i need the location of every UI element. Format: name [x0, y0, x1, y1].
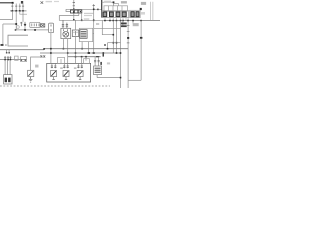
node S — [81, 48, 83, 50]
node I — [93, 9, 95, 22]
node fuse — [80, 11, 81, 12]
node mid — [104, 44, 106, 46]
fuse FB4 — [122, 12, 126, 17]
wire pin — [75, 20, 77, 63]
bus right top — [104, 20, 160, 22]
wire left horizontal — [3, 23, 16, 25]
battery cell 2 — [8, 78, 11, 83]
relay K2 — [63, 63, 69, 79]
node O — [63, 48, 65, 50]
label — [54, 1, 59, 2]
component X4 — [41, 1, 44, 3]
node step — [113, 1, 115, 3]
wire — [122, 21, 125, 27]
box small — [15, 56, 19, 60]
bus left horizontal — [0, 49, 44, 51]
wire — [107, 43, 109, 49]
switch S4 — [22, 4, 24, 11]
connector block 2 — [21, 57, 27, 62]
terminal tick 2 — [5, 44, 8, 46]
node D — [24, 24, 26, 26]
relay enclosure box — [47, 63, 91, 82]
node fuse2 — [81, 20, 83, 22]
wire — [96, 75, 98, 78]
ground — [29, 77, 33, 83]
connector J2 — [62, 20, 68, 28]
label — [96, 23, 99, 25]
switch S1 — [11, 3, 13, 11]
fuse F1 — [49, 23, 54, 33]
small box — [84, 59, 90, 64]
bus mid-lower — [68, 56, 101, 58]
connector circle — [17, 26, 20, 29]
wire riser — [93, 4, 95, 53]
wire left branch — [0, 11, 13, 20]
wire — [81, 13, 83, 20]
battery box — [4, 75, 12, 84]
wire — [24, 26, 26, 30]
node J — [140, 8, 142, 10]
heater element — [94, 66, 102, 75]
node M — [127, 37, 129, 39]
dashed ground line — [0, 85, 110, 87]
wire motor pin 1 — [62, 39, 64, 49]
wire — [81, 42, 83, 49]
wire right vertical 2 — [127, 21, 130, 88]
wire fuse stubs — [105, 18, 128, 21]
label — [107, 62, 110, 64]
fuse box C — [130, 10, 141, 17]
dark mark — [21, 1, 23, 4]
wire — [59, 16, 104, 21]
wire — [20, 11, 27, 14]
node B — [12, 10, 24, 12]
wire step 2 — [114, 4, 119, 6]
label — [141, 2, 146, 5]
wire lower-right horizontal — [97, 77, 120, 79]
wire stub — [132, 21, 134, 24]
switch S2 — [15, 4, 17, 11]
label — [121, 1, 127, 3]
fuse box B — [102, 11, 129, 18]
wire far right pair — [151, 2, 153, 21]
wire top-middle vertical — [73, 0, 75, 20]
label — [84, 18, 90, 19]
wire — [78, 13, 80, 16]
fuse box A — [104, 6, 128, 11]
wire battery leads — [5, 60, 10, 75]
component X6 — [72, 30, 78, 37]
connector ticks — [4, 56, 12, 59]
node R — [93, 52, 95, 54]
connector block X2 — [30, 22, 40, 27]
fuse FB2 — [110, 12, 114, 17]
wire — [66, 8, 102, 10]
label — [84, 13, 94, 14]
fuse FB1 — [103, 12, 107, 17]
wire motor pin 2 — [67, 39, 69, 64]
connector J1 — [20, 22, 26, 26]
node F — [34, 29, 36, 31]
node Q — [75, 52, 77, 57]
node C — [15, 23, 17, 25]
wire — [31, 57, 45, 70]
relay K1 — [51, 63, 57, 79]
wire — [108, 42, 121, 44]
node Z — [96, 56, 99, 57]
node G — [15, 29, 17, 31]
bus middle horizontal — [44, 48, 128, 50]
node AA — [120, 77, 122, 79]
node L — [116, 42, 118, 44]
fuse row F2 — [71, 10, 82, 13]
wire fuse pin — [50, 33, 52, 64]
fuse FC2 — [136, 12, 139, 17]
label — [35, 65, 38, 68]
component X3 — [41, 24, 45, 27]
battery cell 1 — [5, 78, 7, 83]
label — [74, 67, 77, 69]
label — [84, 15, 92, 16]
node K — [113, 34, 115, 44]
node H — [73, 9, 75, 21]
component box D — [58, 58, 65, 64]
node W — [4, 59, 11, 61]
wire middle-left horizontal — [15, 29, 49, 31]
label — [60, 67, 63, 69]
relay K4 — [28, 70, 34, 76]
wire — [15, 11, 17, 30]
node jog — [43, 48, 45, 50]
terminal tick — [97, 9, 98, 11]
wire stub resistor — [93, 33, 94, 35]
wire long right vertical — [120, 21, 122, 88]
node T — [50, 48, 108, 50]
bus lower-left — [0, 59, 27, 61]
wire — [112, 21, 114, 53]
node X — [21, 59, 26, 60]
node Y — [81, 56, 87, 58]
wire main feed dark — [101, 0, 103, 18]
motor M1 — [61, 28, 71, 38]
wire left trunk — [2, 24, 4, 44]
fuse FB3 — [116, 12, 120, 17]
label — [46, 1, 52, 2]
wire step — [102, 2, 114, 6]
terminal — [1, 44, 4, 46]
wire — [22, 11, 24, 22]
fuse FC1 — [131, 12, 134, 17]
wire branch — [66, 9, 71, 11]
wire — [88, 42, 90, 53]
node N — [140, 37, 143, 39]
node bus dots — [104, 20, 142, 22]
wire — [81, 57, 83, 64]
wire — [116, 21, 118, 53]
label — [104, 1, 111, 3]
label — [141, 12, 145, 15]
relay K3 — [77, 63, 83, 79]
wire — [102, 21, 113, 35]
node E — [24, 29, 26, 31]
node U — [50, 52, 121, 54]
wire bottom-right box — [128, 79, 141, 81]
node V — [6, 52, 10, 54]
enclosure box left — [8, 35, 28, 46]
component marks — [40, 55, 45, 57]
bus lower horizontal — [40, 52, 121, 54]
connector pins right-bottom — [94, 57, 100, 66]
wire top-left feed — [0, 2, 13, 4]
label — [133, 23, 139, 26]
component dark mark 2 — [100, 62, 102, 65]
wire bus upper-left — [10, 10, 27, 12]
connector dark block — [121, 23, 127, 28]
stub wires — [7, 50, 10, 53]
wire — [94, 28, 121, 30]
node P — [67, 52, 69, 54]
wire right vertical 3 — [140, 21, 142, 81]
component dark mark — [103, 53, 105, 57]
wire — [85, 57, 87, 61]
switch S3 — [19, 4, 21, 11]
resistor block R1 — [79, 28, 92, 41]
wire jog — [43, 49, 45, 50]
node A — [12, 2, 14, 4]
